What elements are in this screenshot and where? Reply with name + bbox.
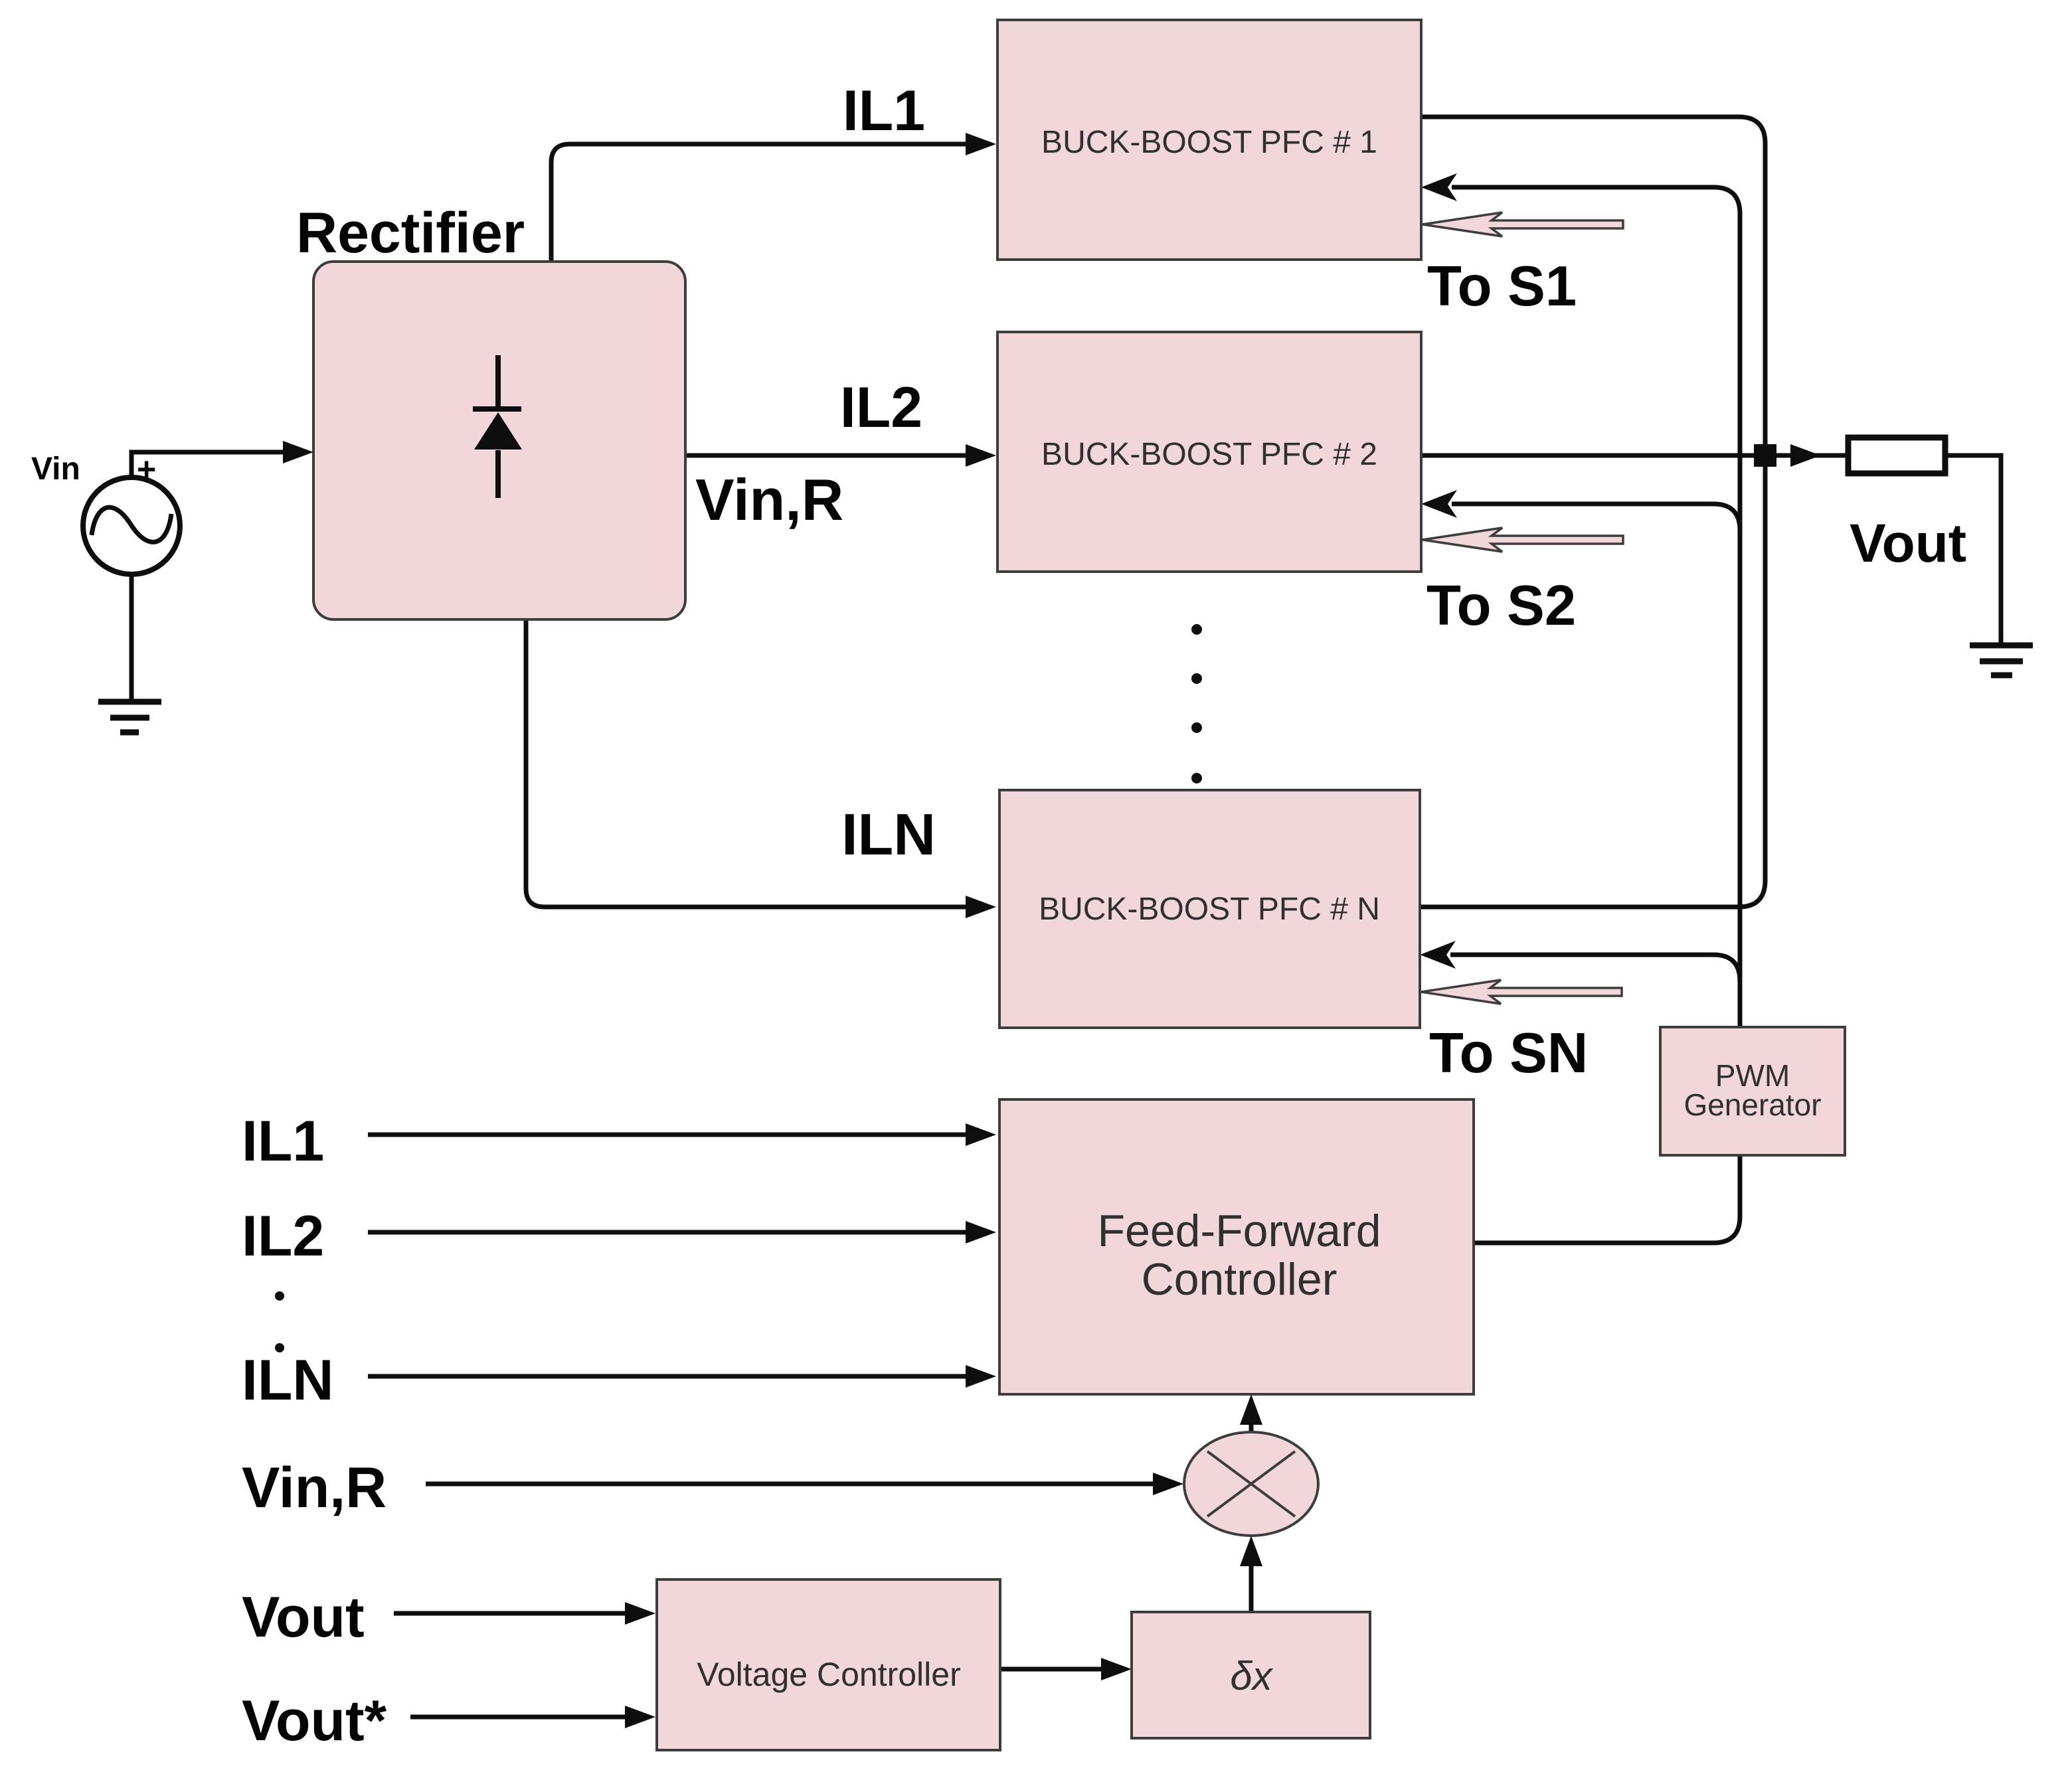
svg-text:Generator: Generator [1683,1088,1821,1122]
svg-text:To S1: To S1 [1427,255,1577,318]
svg-text:Controller: Controller [1142,1254,1338,1305]
svg-text:Rectifier: Rectifier [296,201,525,265]
svg-text:To S2: To S2 [1426,574,1576,637]
svg-text:BUCK-BOOST PFC # N: BUCK-BOOST PFC # N [1039,892,1380,927]
svg-text:IL1: IL1 [843,79,925,143]
svg-text:δx: δx [1230,1654,1273,1698]
svg-text:IL2: IL2 [840,376,922,440]
svg-text:Feed-Forward: Feed-Forward [1097,1206,1381,1256]
svg-text:Vin,R: Vin,R [695,467,843,532]
svg-text:ILN: ILN [841,801,936,867]
svg-text:ILN: ILN [242,1348,334,1412]
svg-text:IL2: IL2 [242,1204,324,1268]
svg-text:Vout: Vout [1850,513,1966,574]
svg-text:Vout: Vout [242,1585,365,1649]
svg-text:To SN: To SN [1429,1022,1588,1085]
svg-text:Vin,R: Vin,R [242,1456,387,1520]
svg-text:IL1: IL1 [242,1109,324,1173]
svg-text:Vout*: Vout* [242,1689,387,1753]
svg-text:BUCK-BOOST PFC # 2: BUCK-BOOST PFC # 2 [1041,437,1377,472]
svg-text:+: + [137,451,156,488]
svg-text:BUCK-BOOST PFC # 1: BUCK-BOOST PFC # 1 [1041,125,1377,160]
svg-text:Vin: Vin [31,451,80,487]
svg-text:Voltage Controller: Voltage Controller [697,1656,960,1693]
